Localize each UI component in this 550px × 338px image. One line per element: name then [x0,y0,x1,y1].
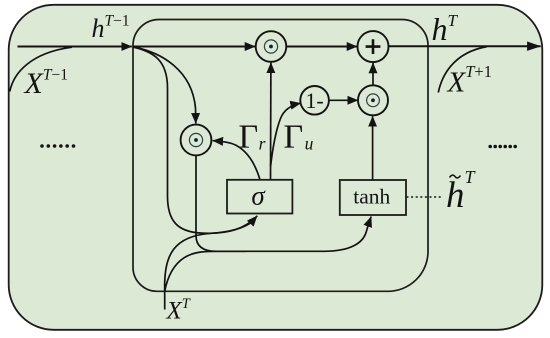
wire: X(T) to tanh [165,217,372,292]
wire: odot-right up to plus [372,63,374,85]
wire: odot-top to plus [287,46,358,48]
wire: plus to h(T) output with big arrow [389,45,541,47]
odot-left circle [181,125,212,156]
wire: odot-left output down then right to tanh feed [196,156,246,252]
wire: X(T-1) entry curve [10,47,72,91]
wire: X(T) entry stub [164,291,166,309]
ellipsis dots left [40,144,75,148]
wire: 1- to odot-right [329,99,358,101]
inner rounded rect: GRU cell body [133,20,428,292]
odot-right circle [358,85,388,115]
tanh box [340,180,406,215]
svg-text:tanh: tanh [353,184,390,208]
wire: h line junction to odot-top [133,46,255,48]
wire: sigma to odot-left (Gamma_r) [213,141,260,180]
svg-text:σ: σ [251,181,266,211]
wire: sigma up to odot-top (Gamma_u main) [270,63,272,180]
wire: h(T-1) input line left [18,46,132,48]
1- circle [300,86,329,115]
wire: X(T) to sigma [165,222,253,292]
wire: branch to 1- circle [271,103,301,166]
svg-text:1-: 1- [305,88,323,113]
wire: X(T+1) exit curve [438,47,487,93]
sigma box [227,180,292,214]
wire: dotted tanh to h-tilde label [407,196,443,198]
ellipsis dots right [488,145,517,149]
odot-top circle [256,31,287,62]
plus circle [358,31,389,62]
wire: h(T-1) down to odot-left [133,47,196,124]
wire: h(T-1) down-left branch to sigma [133,47,257,233]
wire: tanh up to odot-right [372,116,374,180]
